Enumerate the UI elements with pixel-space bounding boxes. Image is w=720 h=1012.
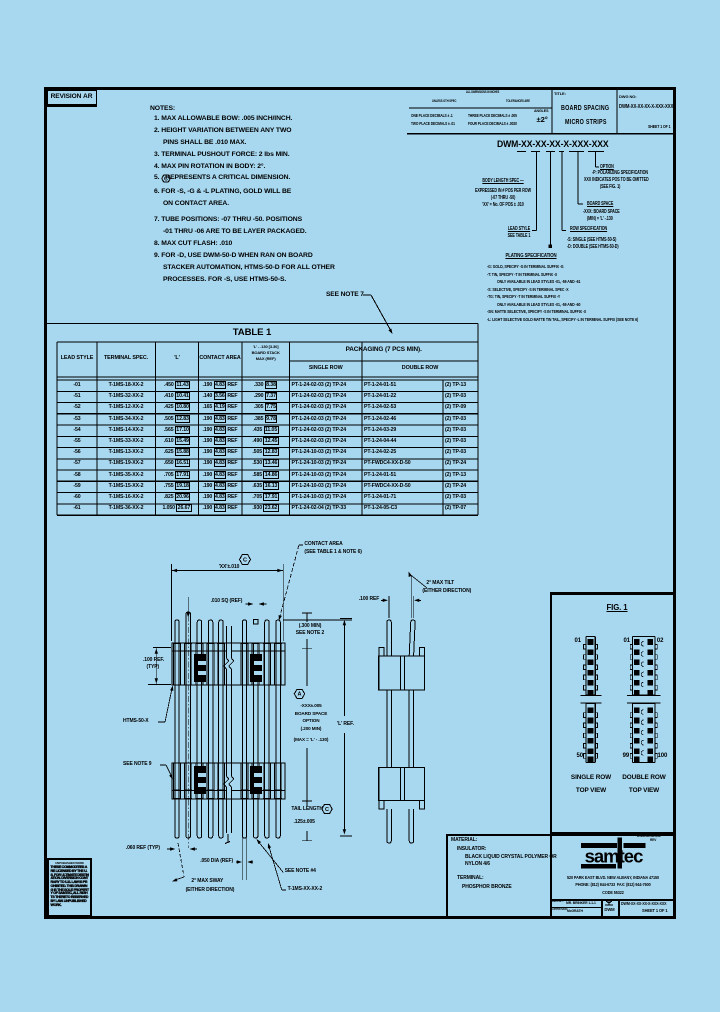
- sway label: [191, 879, 223, 884]
- see note 9 label: [123, 762, 151, 767]
- svg-text:C: C: [164, 176, 168, 182]
- fig1 double break lines: [627, 695, 661, 697]
- table 1 title: [152, 328, 352, 338]
- sway leader: [178, 843, 184, 877]
- 'L' ref label: [336, 721, 355, 728]
- see note 7 leader: [363, 294, 371, 296]
- body row 1: [172, 643, 285, 685]
- see note 7 label: [326, 292, 364, 299]
- title row bottom: [550, 899, 676, 901]
- see note 4 leader: [258, 841, 284, 873]
- fig1 single row connector: [585, 637, 587, 696]
- htms leader: [158, 721, 165, 723]
- contact area label: [304, 542, 342, 547]
- table 1 header text: [0, 356, 177, 361]
- samtec logo: [581, 843, 617, 848]
- .050 dia label: [200, 859, 233, 864]
- fig 1 box: [550, 592, 677, 834]
- plating specification callout: [451, 254, 611, 259]
- front view pins: [175, 620, 179, 643]
- pin 1 indicator arrow: [187, 597, 189, 614]
- .010 sq arrows: [246, 603, 253, 605]
- htms-50-x label: [123, 719, 149, 724]
- material block: [446, 834, 676, 916]
- bottom row logo: [605, 900, 613, 905]
- .010 sq label: [211, 599, 243, 604]
- revision box: [47, 90, 97, 108]
- tolerance block lines: [409, 107, 552, 109]
- part number underlines and leaders: [517, 151, 526, 153]
- body row 2: [172, 763, 285, 799]
- board space option label: [211, 704, 411, 709]
- see note 4 label: [285, 869, 316, 874]
- fig1 double row connector: [632, 637, 634, 696]
- fig1 single break lines: [581, 695, 602, 697]
- .060 ref label: [126, 846, 160, 851]
- samtec address: [637, 835, 661, 838]
- table 1 data rows: [57, 383, 97, 388]
- front view dimension line (body length): [240, 555, 251, 565]
- option callout: [600, 165, 614, 170]
- break lines: [227, 644, 231, 684]
- lead style callout: [445, 227, 593, 232]
- side view pins: [387, 620, 391, 656]
- side view body 2: [379, 768, 425, 801]
- .100 ref arrows (side): [381, 599, 387, 601]
- (.300 min) label: [210, 624, 410, 629]
- 'L' dimension line: [343, 621, 345, 716]
- dim rail x307: [284, 619, 353, 621]
- table 1 grid: [45, 323, 478, 325]
- .050 dia arrows: [242, 838, 244, 880]
- svg-text:samtec: samtec: [585, 846, 643, 867]
- see note 9 leader: [160, 764, 166, 766]
- .100 ref typ label: [143, 658, 164, 663]
- body length spec callout: [429, 179, 577, 184]
- notes list: [150, 106, 175, 113]
- title block text: [554, 92, 566, 96]
- row specification callout: [570, 227, 607, 232]
- svg-text:A: A: [298, 692, 302, 698]
- tilt leader: [410, 576, 412, 618]
- tolerance block: [466, 91, 499, 95]
- dim XX label: [212, 565, 246, 570]
- terminal label: [288, 887, 323, 892]
- contact area leader: [299, 544, 303, 546]
- note 5 hexagon: [162, 175, 171, 182]
- insulator section blocks: [194, 654, 206, 682]
- .100 ref typ dimension: [153, 647, 171, 649]
- .100 ref label (side view): [359, 597, 379, 602]
- terminal leader: [282, 889, 286, 891]
- drawing border frame: [44, 87, 676, 919]
- board space callout: [587, 202, 613, 207]
- side view body 1: [379, 656, 425, 690]
- svg-text:C: C: [243, 557, 247, 563]
- proprietary note box: [47, 858, 92, 917]
- centerline symbol: [225, 834, 230, 844]
- .060 arrows: [167, 848, 174, 850]
- tilt label: [426, 581, 454, 586]
- svg-text:C: C: [325, 807, 329, 813]
- tail length label: [291, 807, 323, 812]
- part number callout: [497, 139, 609, 148]
